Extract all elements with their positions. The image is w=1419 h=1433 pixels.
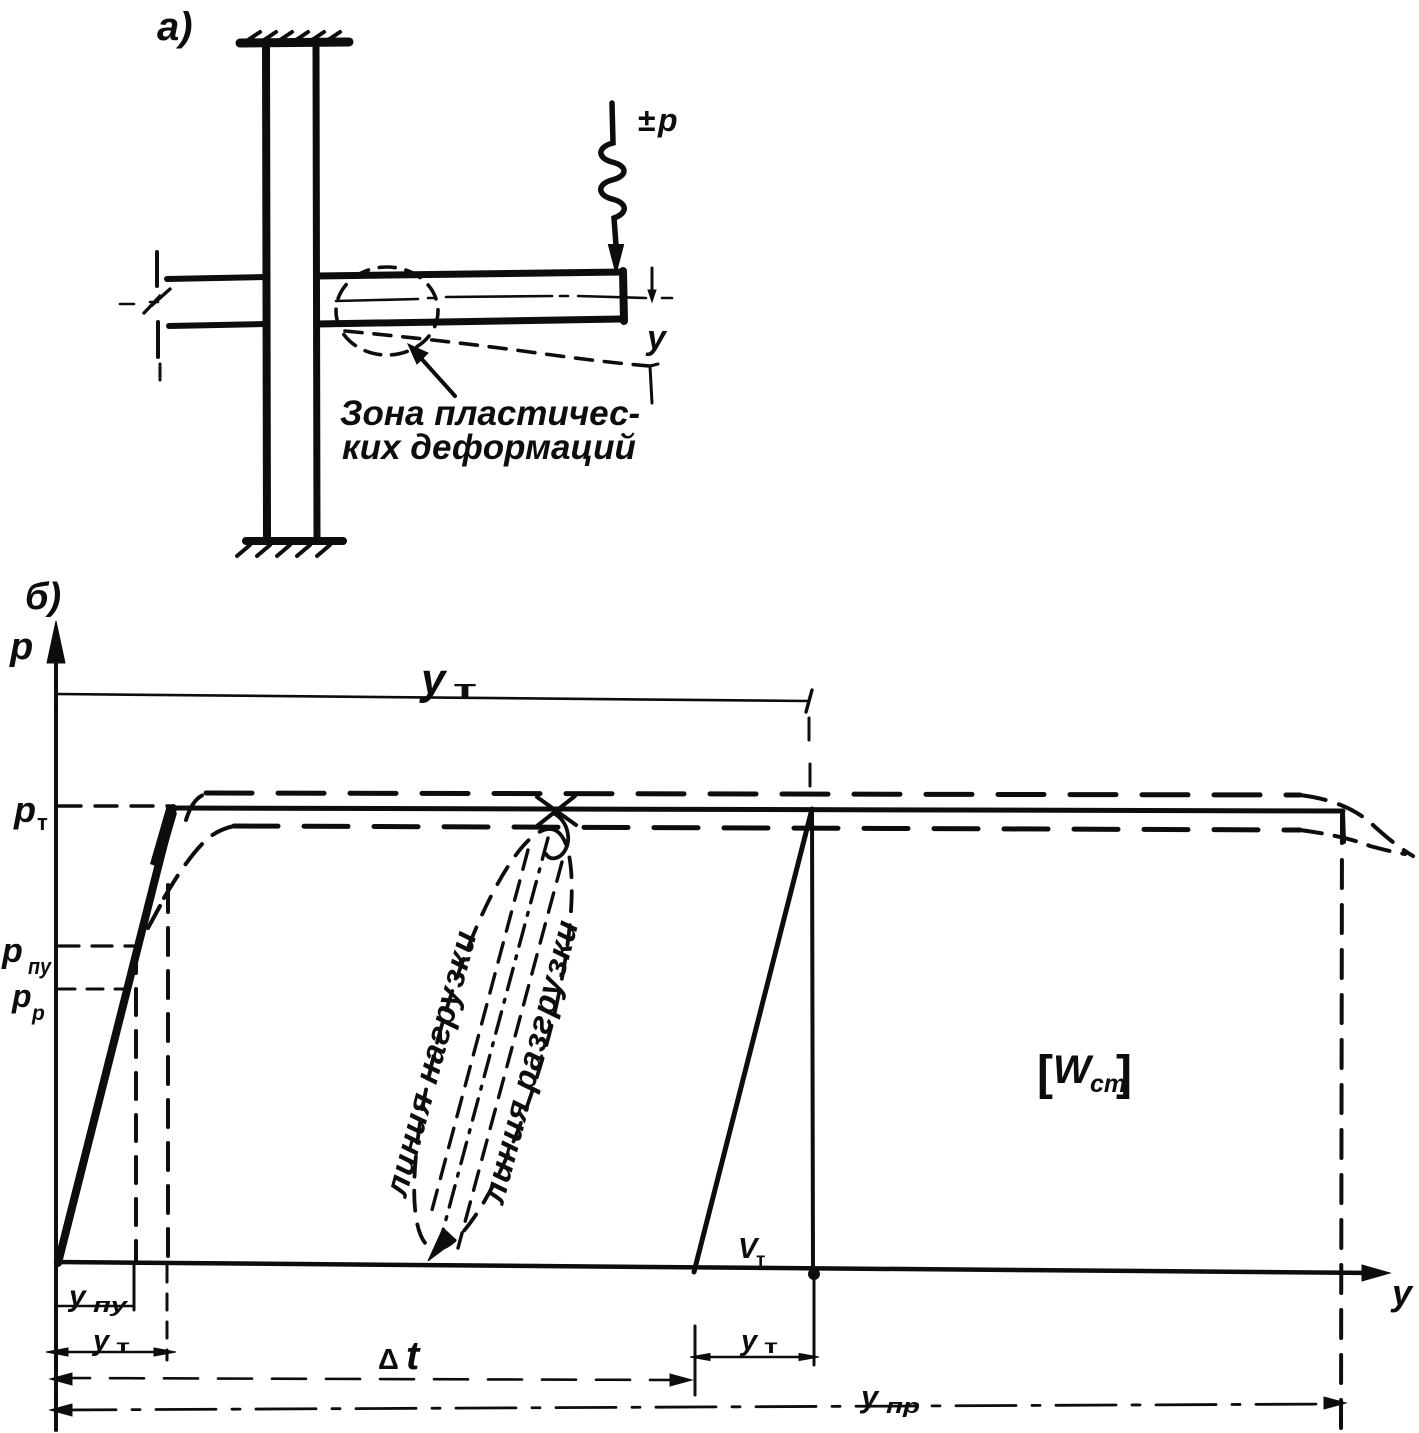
svg-text:т: т: [116, 1337, 130, 1358]
svg-text:]: ]: [1116, 1047, 1132, 1100]
upper dashed right bend: [1300, 795, 1413, 856]
spring: [601, 103, 625, 245]
svg-text:p: p: [11, 978, 32, 1014]
left beam stub: [167, 277, 266, 279]
bottom support: [246, 537, 343, 545]
curl below X: [546, 814, 568, 858]
svg-text:б): б): [25, 576, 61, 618]
lower dashed plateau: [234, 826, 1300, 830]
left end break mark: [144, 289, 170, 313]
y dimension tick top: [651, 268, 654, 292]
svg-text:т: т: [37, 810, 48, 835]
svg-text:[: [: [1037, 1047, 1053, 1100]
cycles dashed ellipse: [382, 815, 604, 1263]
dashes below top dim tick: [809, 718, 810, 786]
vertical solid line at y_t end: [812, 809, 813, 1274]
lower dashed right bend: [1300, 830, 1405, 854]
lower dashed plateau rise: [148, 906, 160, 928]
svg-text:у: у: [1390, 1272, 1414, 1313]
spring arrowhead: [609, 245, 623, 272]
svg-text:у: у: [419, 655, 448, 704]
svg-text:у: у: [739, 1325, 759, 1357]
svg-text:ких деформаций: ких деформаций: [342, 428, 636, 467]
X mark on plateau: [537, 796, 576, 826]
svg-text:у: у: [645, 319, 668, 357]
svg-text:линия разгрузки: линия разгрузки: [474, 915, 586, 1209]
plastic-zone dashed ellipse: [336, 267, 438, 355]
top support: [240, 42, 349, 43]
right vertical dashed (y_t): [166, 885, 170, 1262]
svg-text:т: т: [453, 676, 477, 703]
ellipse bottom arrow: [428, 1228, 456, 1261]
svg-text:p: p: [9, 626, 33, 668]
right long vertical dashed: [1341, 815, 1342, 1430]
svg-text:а): а): [157, 5, 193, 49]
svg-text:Δ: Δ: [378, 1344, 399, 1376]
beam centerline: [120, 296, 672, 304]
solid plateau: [171, 808, 1343, 811]
y dimension tick bottom: [650, 364, 658, 403]
svg-text:p: p: [13, 789, 36, 830]
p_pu dashed level: [59, 944, 134, 947]
p_t dashed level: [59, 804, 170, 807]
svg-text:t: t: [406, 1334, 421, 1378]
svg-text:линия нагрузки: линия нагрузки: [377, 926, 484, 1202]
pointer arrow to plastic zone: [419, 356, 455, 396]
plateau end tick: [1343, 812, 1344, 842]
svg-text:пу: пу: [28, 954, 53, 979]
p axis arrowhead: [47, 621, 65, 663]
svg-text:пу: пу: [93, 1295, 128, 1317]
svg-text:у: у: [67, 1280, 87, 1313]
top y_t dimension line: [56, 694, 808, 701]
deflection dashed curve: [345, 331, 650, 366]
p_p dashed level: [59, 988, 124, 991]
left beam end ticks: [155, 252, 159, 286]
svg-text:у: у: [859, 1379, 880, 1414]
dim row y_pu: [133, 1265, 136, 1310]
p axis: [54, 650, 58, 1430]
x axis arrowhead: [1362, 1265, 1390, 1281]
right beam: [317, 272, 622, 276]
svg-text:т: т: [756, 1250, 765, 1271]
left vertical dashed (y_pu): [134, 947, 138, 1262]
svg-text:т: т: [764, 1337, 778, 1358]
solid loading line: [58, 808, 173, 1263]
svg-text:p: p: [1, 932, 23, 970]
column right line: [316, 46, 317, 539]
svg-text:W: W: [1053, 1048, 1094, 1092]
beam end cap: [623, 271, 624, 321]
svg-text:±: ±: [638, 102, 656, 138]
upper dashed plateau: [186, 794, 206, 820]
cycles inner dash-dot lines: [441, 838, 548, 1238]
column left line: [266, 46, 267, 539]
svg-text:р: р: [31, 1002, 45, 1025]
unloading solid line: [694, 809, 812, 1272]
svg-text:p: p: [657, 102, 678, 138]
x axis baseline: [56, 1262, 1378, 1273]
